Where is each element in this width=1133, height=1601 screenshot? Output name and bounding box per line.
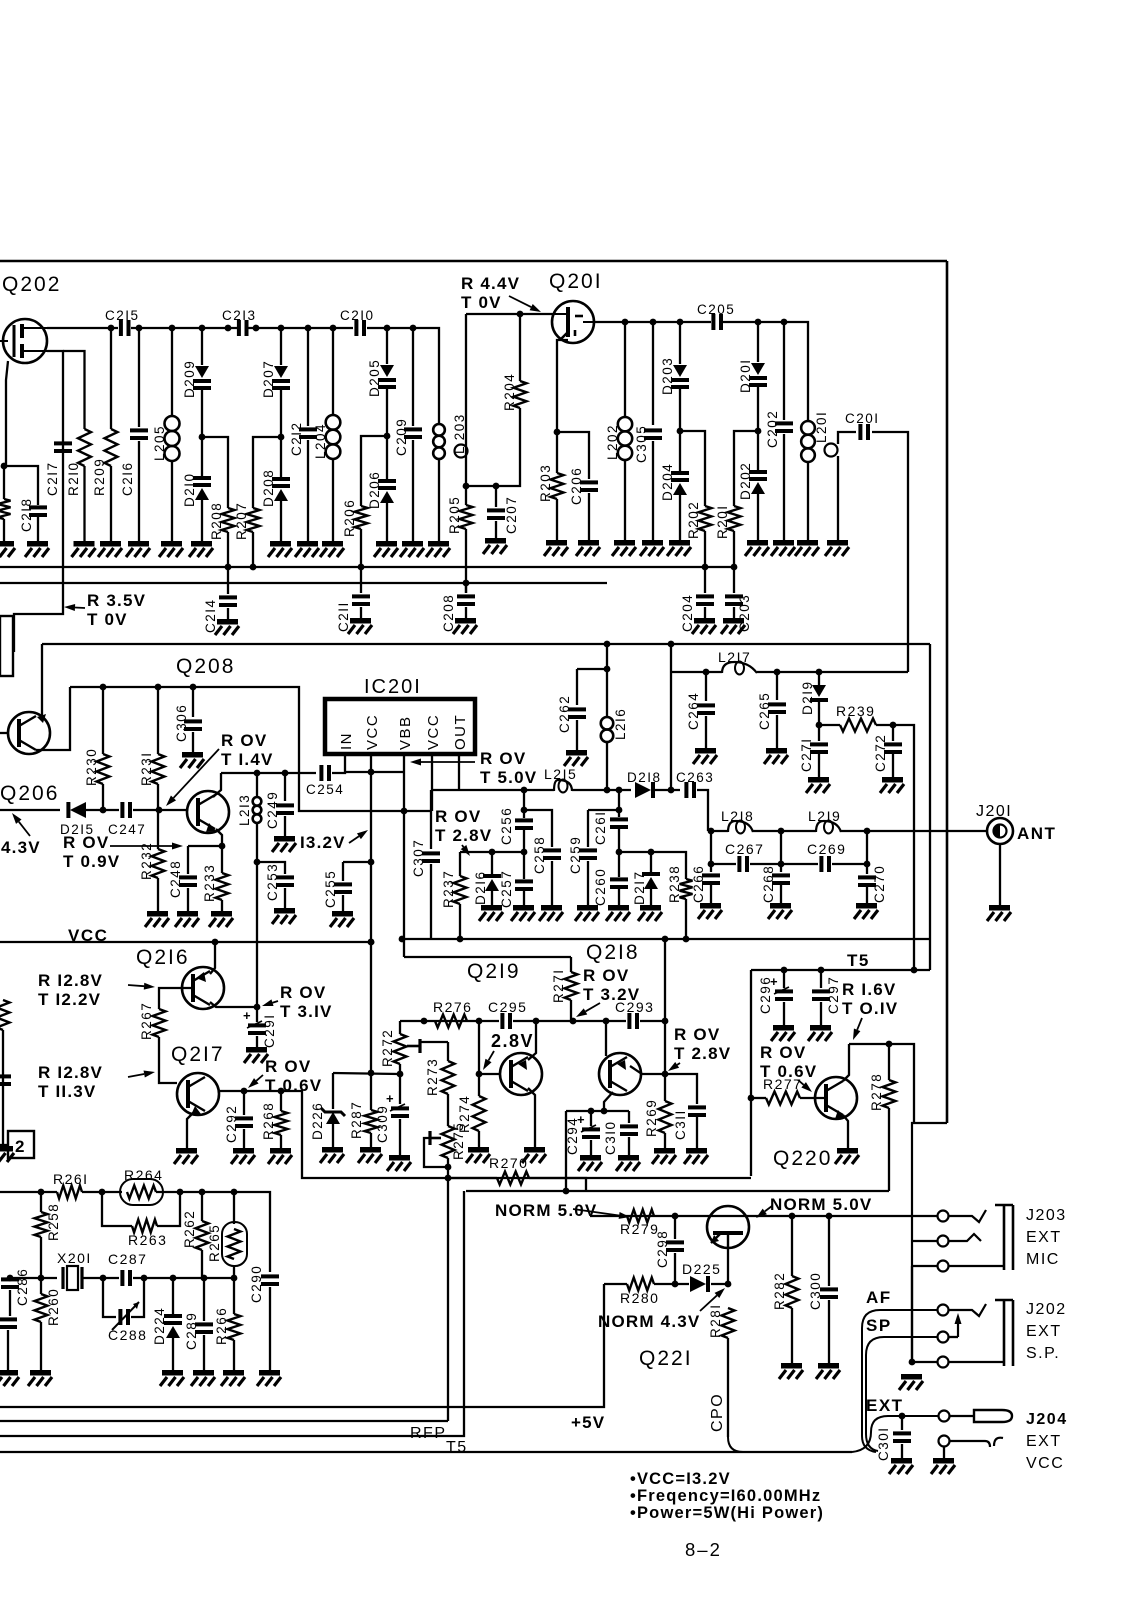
svg-text:C272: C272 bbox=[873, 734, 888, 772]
wire C262 elbow bbox=[577, 668, 607, 670]
wire Q216 base bbox=[159, 988, 193, 1009]
capacitor C249 bbox=[276, 803, 294, 815]
wire D207 to D208 bbox=[280, 390, 282, 477]
ground C292 bbox=[231, 1148, 255, 1164]
resistor R210 bbox=[78, 429, 91, 466]
wire VCC bus bbox=[0, 941, 371, 943]
node cap rail bbox=[708, 861, 871, 868]
svg-text:C254: C254 bbox=[306, 782, 344, 797]
wire R208 down bbox=[227, 532, 229, 567]
inductor L203 bbox=[433, 424, 445, 459]
diode D205 varactor bbox=[378, 365, 396, 389]
ground C208 bbox=[453, 618, 477, 634]
wire R280 rail bbox=[604, 1283, 627, 1285]
svg-text:C267: C267 bbox=[725, 841, 764, 857]
node OUT rail bbox=[521, 787, 623, 794]
svg-text:J20I: J20I bbox=[976, 803, 1012, 820]
wire L203 tap down bbox=[465, 314, 467, 486]
inductor L203 tap bbox=[455, 445, 468, 458]
wire R209 down bbox=[110, 466, 112, 541]
wire bus RFP bbox=[0, 1420, 448, 1422]
wire R262 down bbox=[201, 1250, 203, 1278]
ground R268 bbox=[268, 1148, 292, 1164]
wire C309 drop bbox=[399, 1074, 401, 1104]
wire pin VCC2 down bbox=[431, 754, 433, 811]
svg-text:D206: D206 bbox=[367, 471, 382, 509]
connector J202 switch arrow bbox=[955, 1313, 962, 1337]
ground Q220 bbox=[835, 1148, 859, 1164]
resistor R278 bbox=[883, 1080, 896, 1108]
svg-text:C305: C305 bbox=[634, 425, 649, 463]
svg-text:Q202: Q202 bbox=[2, 273, 61, 296]
node Q219 base bbox=[476, 1071, 483, 1078]
resistor R264 oval bbox=[120, 1179, 163, 1205]
wire C262 L216 riser bbox=[670, 644, 672, 790]
ground D204 bbox=[667, 540, 691, 556]
capacitor C203 bbox=[725, 594, 743, 606]
wire C272 down bbox=[892, 754, 894, 777]
wire R266 down bbox=[233, 1340, 235, 1370]
wire C205 right bbox=[723, 322, 808, 421]
svg-text:IN: IN bbox=[338, 732, 355, 750]
wire R265 down bbox=[233, 1266, 235, 1314]
svg-text:C204: C204 bbox=[680, 594, 695, 632]
diode D218 bbox=[635, 782, 655, 798]
svg-text:R 4.4V: R 4.4V bbox=[461, 274, 520, 293]
capacitor C247 bbox=[120, 802, 132, 818]
wire J203 jack gnd riser bbox=[911, 1266, 913, 1362]
svg-text:C2II: C2II bbox=[336, 601, 351, 632]
svg-text:NORM 5.0V: NORM 5.0V bbox=[770, 1195, 872, 1214]
svg-text:C257: C257 bbox=[499, 870, 514, 908]
wire Q218 riser b bbox=[664, 1021, 666, 1074]
ground C206 bbox=[576, 540, 600, 556]
diode D225 bbox=[690, 1276, 710, 1292]
wire R260 down bbox=[40, 1322, 42, 1370]
resistor R202 bbox=[699, 506, 712, 531]
wire R207 down bbox=[252, 532, 254, 567]
wire R260 drop bbox=[40, 1278, 42, 1294]
svg-text:C253: C253 bbox=[265, 863, 280, 901]
svg-text:R206: R206 bbox=[342, 499, 357, 537]
ground L204 bbox=[320, 541, 344, 557]
ground C255 bbox=[330, 911, 354, 927]
resistor R277 bbox=[766, 1092, 800, 1105]
wire C296 down bbox=[783, 1002, 785, 1025]
wire C290 drop bbox=[269, 1271, 271, 1273]
capacitor C267 bbox=[737, 856, 749, 872]
svg-text:T II.3V: T II.3V bbox=[38, 1082, 96, 1101]
node L217 rail bbox=[703, 669, 823, 676]
svg-text:+: + bbox=[243, 1008, 251, 1023]
svg-text:C293: C293 bbox=[615, 999, 654, 1015]
wire Q218a emitter node bbox=[604, 1092, 613, 1111]
annotation arrow T0.9V bbox=[110, 843, 183, 850]
ground C203 bbox=[721, 618, 745, 634]
wire R238 down bbox=[685, 899, 687, 939]
wire Q220 collector bbox=[843, 1044, 849, 1081]
svg-text:L202: L202 bbox=[605, 424, 620, 460]
capacitor C255 bbox=[334, 882, 352, 894]
svg-text:L2I6: L2I6 bbox=[613, 708, 628, 740]
capacitor C285 partial bbox=[0, 1317, 17, 1329]
wire C297 drop bbox=[820, 970, 822, 988]
wire R280 to D225 bbox=[654, 1283, 689, 1285]
inductor L204 bbox=[326, 415, 341, 459]
node R277 junction bbox=[748, 1095, 755, 1102]
resistor R238 bbox=[680, 879, 693, 899]
transistor Q218a bbox=[599, 1053, 641, 1095]
svg-text:R OV: R OV bbox=[435, 807, 481, 826]
svg-text:C268: C268 bbox=[761, 865, 776, 903]
wire C257 down bbox=[523, 891, 525, 905]
node D207 D208 junction bbox=[278, 434, 285, 441]
wire C214 drop bbox=[227, 567, 229, 594]
wire section2 top line bbox=[42, 643, 930, 645]
wire R268 drop bbox=[280, 1091, 282, 1111]
node D209 D210 junction bbox=[199, 434, 206, 441]
wire R273 top elbow bbox=[420, 1042, 448, 1046]
ground C285 bbox=[0, 1370, 19, 1386]
diode D216 bbox=[483, 874, 501, 891]
svg-text:R OV: R OV bbox=[760, 1043, 806, 1062]
node R204 top bbox=[517, 311, 524, 318]
capacitor C206 bbox=[580, 480, 598, 492]
wire C247 to Q208 base bbox=[133, 809, 187, 811]
transistor Q220 bbox=[815, 1077, 857, 1119]
wire Q219a collector bbox=[528, 1021, 536, 1060]
svg-text:C26I: C26I bbox=[593, 810, 608, 845]
resistor R268 bbox=[275, 1111, 288, 1135]
svg-text:D205: D205 bbox=[367, 359, 382, 397]
ground R209 bbox=[98, 541, 122, 557]
diode D217 bbox=[642, 872, 660, 889]
ground C249 bbox=[272, 836, 296, 852]
wire Q218a out rail bbox=[642, 1074, 697, 1104]
wire D215 to C247 bbox=[86, 809, 119, 811]
transistor Q216 bbox=[182, 967, 224, 1009]
node collector rail bbox=[254, 770, 289, 777]
svg-text:SP: SP bbox=[866, 1316, 892, 1335]
svg-text:R27I: R27I bbox=[551, 968, 566, 1003]
wire C300 drop bbox=[828, 1216, 830, 1286]
svg-text:D209: D209 bbox=[182, 360, 197, 398]
capacitor C264 bbox=[697, 703, 715, 715]
ground R282 bbox=[779, 1363, 803, 1379]
wire C301 down bbox=[901, 1444, 903, 1458]
capacitor C298 bbox=[666, 1240, 684, 1252]
ground C297 bbox=[808, 1025, 832, 1041]
svg-text:T 2.8V: T 2.8V bbox=[435, 826, 492, 845]
svg-text:•VCC=I3.2V: •VCC=I3.2V bbox=[630, 1470, 731, 1488]
wire ANT rail b bbox=[753, 830, 816, 832]
svg-text:ANT: ANT bbox=[1017, 824, 1056, 843]
wire Q219 base lead bbox=[479, 1073, 500, 1075]
svg-text:•Freqency=I60.00MHz: •Freqency=I60.00MHz bbox=[630, 1487, 821, 1505]
svg-text:C2I8: C2I8 bbox=[19, 497, 34, 532]
svg-text:R20I: R20I bbox=[715, 504, 730, 539]
wire junction to R206 bbox=[361, 436, 387, 506]
svg-text:Q206: Q206 bbox=[0, 782, 59, 805]
svg-text:MIC: MIC bbox=[1026, 1251, 1060, 1268]
wire Q202 source rail bbox=[14, 351, 63, 652]
inductor L201 bbox=[801, 421, 815, 462]
diode D226 zener bbox=[321, 1108, 345, 1124]
svg-text:R209: R209 bbox=[92, 458, 107, 496]
svg-text:C2I2: C2I2 bbox=[289, 421, 304, 456]
capacitor C305 bbox=[644, 428, 662, 440]
wire Q217 collector rail bbox=[219, 1091, 751, 1178]
wire R263 right bbox=[157, 1192, 180, 1226]
wire pin OUT down bbox=[458, 754, 460, 790]
svg-text:C2I6: C2I6 bbox=[120, 461, 135, 496]
ground C265 bbox=[764, 748, 788, 764]
wire R201 down bbox=[733, 531, 735, 566]
transistor Q208 bbox=[187, 791, 229, 833]
wire C300 down bbox=[828, 1300, 830, 1363]
node D219 R239 bbox=[816, 722, 823, 729]
wire D201 drop bbox=[757, 322, 759, 362]
svg-text:R233: R233 bbox=[202, 864, 217, 902]
node ANT rail bbox=[708, 828, 871, 835]
capacitor C306 bbox=[184, 719, 202, 731]
wire C214 down bbox=[227, 608, 229, 619]
ground D208 bbox=[268, 541, 292, 557]
ground L203 bbox=[426, 541, 450, 557]
wire C298 down bbox=[674, 1253, 676, 1284]
capacitor C301 bbox=[893, 1431, 911, 1443]
annotation arrow 2.8V bbox=[483, 1051, 494, 1070]
ground R266 bbox=[221, 1370, 245, 1386]
annotation arrow NORM right bbox=[756, 1206, 772, 1218]
svg-text:T 0.6V: T 0.6V bbox=[760, 1062, 817, 1081]
svg-text:C270: C270 bbox=[872, 865, 887, 903]
wire C265 drop bbox=[776, 672, 778, 700]
wire pin rail bbox=[345, 771, 404, 773]
svg-text:R202: R202 bbox=[686, 501, 701, 539]
wire C203 drop bbox=[733, 567, 735, 593]
wire R269 down bbox=[664, 1133, 666, 1148]
svg-text:+: + bbox=[386, 1091, 394, 1106]
node D201 D202 junction bbox=[755, 428, 762, 435]
transistor Q202 bbox=[0, 319, 47, 363]
capacitor C217 bbox=[54, 441, 72, 453]
inductor L219 bbox=[816, 821, 841, 834]
svg-text:C208: C208 bbox=[441, 594, 456, 632]
connector J204 hook bbox=[950, 1438, 1003, 1447]
wire D219 drop bbox=[818, 672, 820, 686]
svg-text:C265: C265 bbox=[757, 692, 772, 730]
svg-text:R204: R204 bbox=[502, 373, 517, 411]
svg-text:D20I: D20I bbox=[738, 358, 753, 393]
annotation arrow NORM43 bbox=[700, 1288, 725, 1311]
wire R203 down bbox=[556, 499, 558, 540]
node C256 C257 bbox=[521, 849, 528, 856]
wire J202 row3 bbox=[912, 1361, 937, 1363]
ground C253 bbox=[272, 908, 296, 924]
ground R211 bbox=[0, 541, 15, 557]
diode D224 varactor bbox=[164, 1314, 182, 1338]
capacitor C295 bbox=[500, 1013, 512, 1029]
wire junction to R207 bbox=[253, 437, 281, 508]
svg-text:R23I: R23I bbox=[139, 751, 154, 786]
ground C259 bbox=[575, 905, 599, 921]
svg-text:C255: C255 bbox=[323, 870, 338, 908]
diode D219 bbox=[810, 685, 828, 702]
resistor R276 bbox=[435, 1015, 467, 1028]
capacitor C271 bbox=[810, 742, 828, 754]
resistor R263 bbox=[132, 1220, 157, 1233]
wire R204 down bbox=[466, 408, 520, 486]
svg-text:+5V: +5V bbox=[571, 1413, 605, 1432]
wire C255 elbow bbox=[343, 861, 371, 863]
ground D216 bbox=[479, 905, 503, 921]
wire C249 drop bbox=[284, 773, 286, 801]
node J202 row3 gnd bbox=[909, 1359, 916, 1366]
capacitor C262 bbox=[568, 707, 586, 719]
inductor L205 bbox=[165, 416, 180, 461]
capacitor C309 electrolytic bbox=[386, 1091, 409, 1118]
ground C300 bbox=[816, 1363, 840, 1379]
svg-text:NORM 4.3V: NORM 4.3V bbox=[598, 1312, 700, 1331]
wire cap rail h2 bbox=[750, 863, 818, 865]
ground C296 bbox=[771, 1025, 795, 1041]
wire R237 top bbox=[459, 852, 461, 876]
wire Q202 drain to C215 bbox=[47, 327, 118, 329]
wire ANT rail c bbox=[841, 830, 987, 832]
inductor L217 bbox=[722, 662, 757, 675]
wire C218 down bbox=[37, 517, 39, 541]
capacitor C212 bbox=[299, 427, 317, 439]
capacitor C311 bbox=[688, 1105, 706, 1117]
svg-text:C256: C256 bbox=[499, 807, 514, 845]
box connector left bbox=[0, 616, 13, 676]
svg-text:C2I7: C2I7 bbox=[45, 461, 60, 496]
ground J202 bbox=[899, 1374, 923, 1390]
wire T5 rail bbox=[751, 969, 930, 971]
wire C262 drop bbox=[576, 669, 578, 705]
wire C263 right bbox=[697, 790, 708, 831]
wire Q219a emitter bbox=[528, 1088, 535, 1147]
ground C305 bbox=[640, 540, 664, 556]
diode D204 varactor bbox=[671, 471, 689, 495]
wire J204 gnd stub bbox=[943, 1447, 945, 1458]
wire emitter drop bbox=[565, 1111, 567, 1191]
svg-text:C2I5: C2I5 bbox=[105, 308, 140, 323]
wire Q207 collector bbox=[41, 644, 43, 716]
wire C262 down bbox=[576, 720, 578, 750]
svg-text:X20I: X20I bbox=[57, 1250, 92, 1266]
svg-text:L205: L205 bbox=[152, 425, 167, 461]
resistor R269 bbox=[659, 1101, 672, 1133]
wire C258 elbow bbox=[524, 810, 552, 847]
wire R278 top lead bbox=[888, 1044, 890, 1080]
ground L205 bbox=[159, 541, 183, 557]
wire R211 top bbox=[3, 466, 5, 499]
svg-text:R 3.5V: R 3.5V bbox=[87, 591, 146, 610]
wire R203 drop bbox=[556, 432, 558, 473]
wire C255 down bbox=[342, 895, 344, 911]
svg-text:D207: D207 bbox=[261, 360, 276, 398]
wire C202 drop bbox=[783, 322, 785, 420]
node R275 junction bbox=[445, 1164, 452, 1182]
wire C211 down bbox=[360, 607, 362, 618]
diode D201 varactor bbox=[749, 363, 767, 387]
node 13.2V junctions bbox=[368, 859, 375, 1077]
wire R271 drop bbox=[570, 957, 572, 972]
wire D216 drop bbox=[491, 852, 493, 875]
wire C209 drop bbox=[412, 328, 414, 426]
svg-text:D225: D225 bbox=[682, 1261, 721, 1277]
wire Q218a base riser bbox=[605, 1021, 607, 1056]
node R281 top bbox=[725, 1281, 732, 1288]
capacitor C293 bbox=[627, 1013, 639, 1029]
wire C215 to C213 bbox=[131, 327, 237, 329]
svg-text:L20I: L20I bbox=[814, 411, 829, 443]
connector J202 contact2 bbox=[938, 1332, 949, 1343]
wire R206 down bbox=[360, 529, 362, 567]
capacitor C256 bbox=[515, 818, 533, 830]
wire L202 drop bbox=[624, 322, 626, 417]
resistor R281 bbox=[722, 1308, 735, 1338]
ground J201 bbox=[987, 905, 1011, 921]
wire C294 drop bbox=[590, 1111, 592, 1126]
wire to Q201 gate bbox=[466, 313, 552, 315]
capacitor C272 bbox=[884, 742, 902, 754]
wire C287 right bbox=[133, 1277, 234, 1279]
wire C208 drop bbox=[465, 583, 467, 593]
ground C207 bbox=[483, 538, 507, 554]
resistor R282 bbox=[786, 1276, 799, 1308]
connector J202 contact3 bbox=[938, 1357, 949, 1368]
svg-text:VCC: VCC bbox=[425, 714, 442, 750]
wire L205 drop bbox=[171, 328, 173, 416]
svg-text:R269: R269 bbox=[644, 1099, 659, 1137]
wire SP curve bbox=[866, 1337, 938, 1451]
wire L201 tap down bbox=[837, 456, 839, 540]
wire C249 down bbox=[284, 816, 286, 836]
capacitor C209 bbox=[404, 427, 422, 439]
ground C248 bbox=[175, 911, 199, 927]
svg-text:R278: R278 bbox=[869, 1073, 884, 1111]
svg-text:T5: T5 bbox=[446, 1439, 468, 1456]
svg-text:C287: C287 bbox=[108, 1251, 147, 1267]
svg-text:R OV: R OV bbox=[583, 966, 629, 985]
svg-text:R270: R270 bbox=[489, 1155, 528, 1171]
wire lineB bbox=[466, 1190, 889, 1192]
wire R270 right bbox=[529, 1178, 586, 1191]
node section2 line junctions bbox=[604, 641, 675, 648]
svg-text:R208: R208 bbox=[209, 502, 224, 540]
svg-text:R260: R260 bbox=[46, 1288, 61, 1326]
svg-text:T5: T5 bbox=[847, 951, 870, 970]
svg-text:Q2I8: Q2I8 bbox=[586, 941, 640, 964]
wire bias rail bbox=[70, 687, 432, 811]
annotation arrow 13.2V bbox=[349, 830, 368, 843]
node Q208 emitter bbox=[219, 843, 226, 850]
wire OUT rail2 bbox=[572, 789, 631, 791]
wire R282 down bbox=[791, 1308, 793, 1363]
wire R267 down bbox=[159, 1037, 177, 1083]
svg-text:R258: R258 bbox=[46, 1203, 61, 1241]
svg-text:C202: C202 bbox=[765, 410, 780, 448]
node D205 D206 junction bbox=[384, 433, 391, 440]
node C253 junction bbox=[254, 859, 261, 866]
svg-text:C259: C259 bbox=[568, 836, 583, 874]
svg-text:RFP: RFP bbox=[410, 1425, 447, 1442]
svg-text:Q220: Q220 bbox=[773, 1147, 832, 1170]
svg-text:D2I8: D2I8 bbox=[627, 770, 662, 785]
